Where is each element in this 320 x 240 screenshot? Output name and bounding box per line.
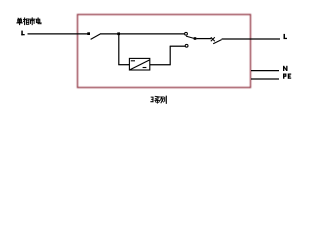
char 市 [30,18,35,25]
wire L output [222,38,280,40]
wire top run [100,33,185,35]
wire riser [169,46,171,64]
selector common node [194,37,197,40]
wire to converter [118,64,129,66]
converter tick top-left [131,60,135,62]
selector contact bottom (circle) [185,44,188,47]
caption char 列 [161,96,167,103]
wire PE output [251,78,279,80]
label L (output) [284,34,288,39]
label PE [283,74,291,79]
wire down from junction [118,34,120,65]
converter box (bypass regulator) [129,58,149,70]
char 相 [23,18,28,25]
switch K1 blade [91,34,101,40]
breaker blade [213,40,221,44]
label L (input) [21,31,24,36]
caption digit 3 [150,97,153,102]
selector contact top (circle) [185,32,188,35]
enclosure box (red) [78,15,251,88]
wire to breaker [196,38,211,40]
junction node [117,32,120,35]
converter diagonal [130,60,149,70]
breaker fixed contact X [211,37,215,41]
wire L input [28,33,89,35]
selector blade [186,36,194,38]
char 单 [17,18,22,24]
label 单相市电 (mains input caption) [17,18,41,25]
converter tick bottom-right [143,67,147,69]
caption char 系 [155,96,160,103]
label N [283,66,288,71]
char 电 [36,18,41,24]
wire N output [251,70,279,72]
wire converter output [150,64,171,66]
wire to bottom contact [170,45,186,47]
switch K1 fixed contact dot [87,32,90,35]
